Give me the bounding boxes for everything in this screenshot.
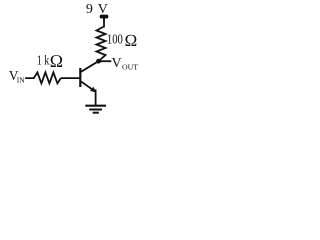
svg-text:IN: IN: [17, 75, 25, 84]
svg-text:100: 100: [107, 32, 123, 47]
svg-text:Ω: Ω: [124, 31, 137, 50]
svg-text:V: V: [98, 2, 108, 17]
svg-text:V: V: [112, 56, 122, 71]
svg-text:Ω: Ω: [50, 51, 64, 71]
svg-text:9: 9: [86, 2, 93, 17]
svg-text:1 k: 1 k: [37, 52, 50, 67]
svg-text:OUT: OUT: [122, 63, 138, 72]
